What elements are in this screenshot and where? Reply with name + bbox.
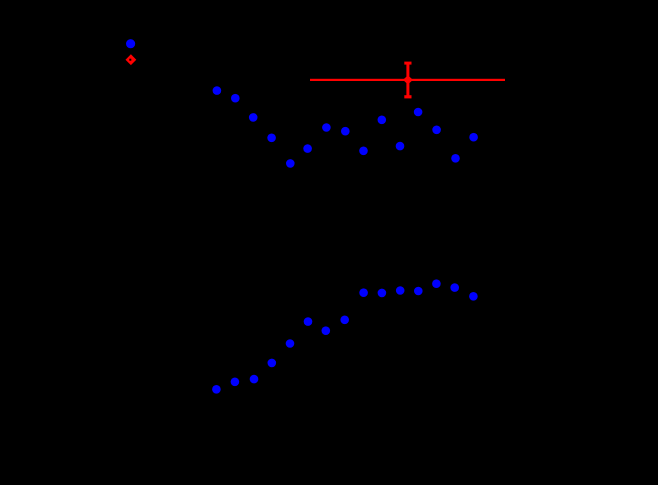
point u7 — [322, 123, 331, 132]
upper series: blue points — [213, 86, 478, 167]
point u6 — [303, 144, 312, 153]
red y-error top cap — [404, 62, 411, 65]
point u1 — [213, 86, 222, 95]
red data point diamond — [403, 75, 413, 84]
point l5 — [286, 339, 295, 348]
point l6 — [304, 317, 313, 326]
point u2 — [231, 94, 240, 103]
legend sample: red diamond — [126, 54, 137, 65]
point u14 — [451, 154, 460, 163]
point l10 — [378, 289, 387, 298]
point u5 — [286, 159, 295, 168]
point l1 — [212, 385, 221, 394]
point u8 — [341, 127, 350, 136]
lower series: blue points — [212, 279, 478, 393]
red x-error horizontal line — [310, 79, 505, 81]
point l9 — [359, 288, 368, 297]
point u3 — [249, 113, 258, 122]
point u12 — [414, 108, 423, 117]
point u11 — [396, 142, 405, 151]
red y-error bottom cap — [404, 95, 411, 98]
point l15 — [469, 292, 478, 301]
point l4 — [268, 359, 277, 368]
point l2 — [231, 378, 240, 387]
point u4 — [267, 134, 276, 143]
point l11 — [396, 286, 405, 295]
point u13 — [432, 126, 441, 135]
point u15 — [469, 133, 478, 142]
point l8 — [340, 316, 349, 325]
point l7 — [322, 326, 331, 335]
red y-error vertical bar — [406, 63, 409, 97]
point l13 — [432, 279, 441, 288]
point u10 — [378, 116, 387, 125]
point u9 — [359, 147, 368, 156]
legend diamond center dot — [129, 59, 131, 61]
point l14 — [450, 283, 459, 292]
point l3 — [250, 375, 259, 384]
point l12 — [414, 287, 423, 296]
legend sample: blue circle — [126, 39, 135, 48]
